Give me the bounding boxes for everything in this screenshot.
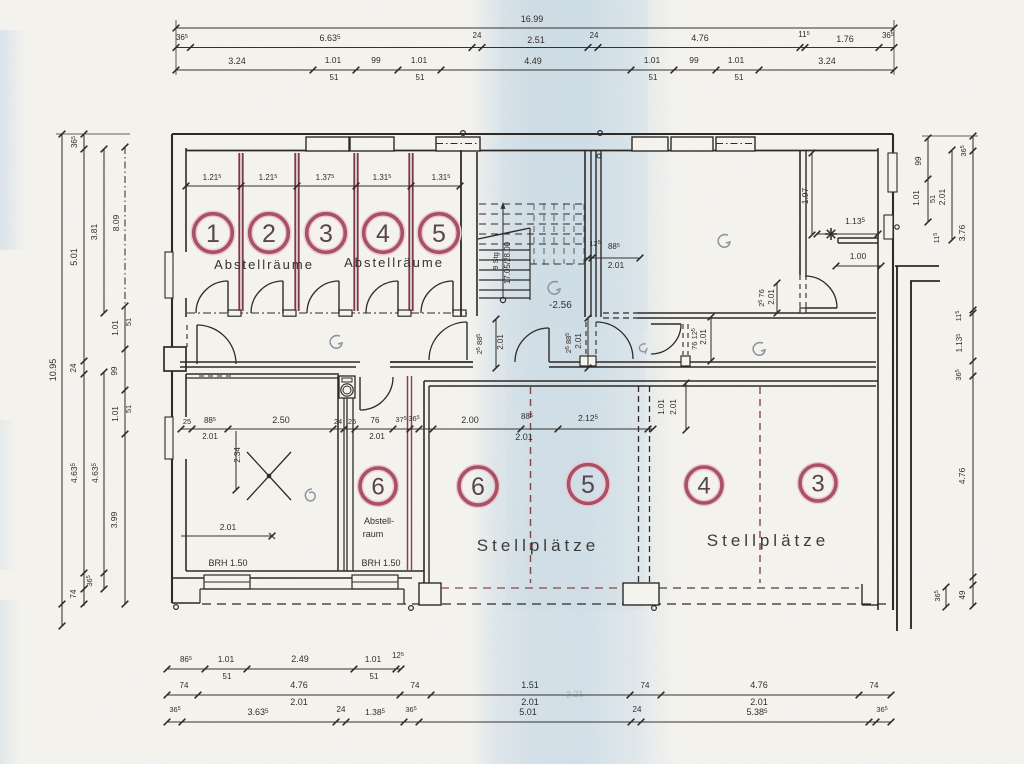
- stall divider dashed 4/3: [759, 387, 761, 583]
- stub wall door B: [681, 356, 690, 366]
- door C top-right room: [805, 307, 837, 309]
- mini dim door A: [587, 318, 589, 368]
- pencil 6 mark: [305, 489, 315, 501]
- stair hall door to parking: [548, 328, 550, 362]
- pencil g small right corridor: [639, 344, 647, 354]
- right corridor top wall: [637, 312, 876, 314]
- washing machine: [339, 376, 355, 398]
- wall between stair hall and right corridor: [584, 150, 586, 317]
- center pier dashed lines: [638, 386, 640, 583]
- circle 3: [307, 214, 346, 253]
- stub below right-corridor door: [580, 356, 596, 366]
- door B right corridor: [651, 323, 681, 325]
- left chain guide line top: [56, 133, 130, 135]
- top dim row 1 : 16.99: [176, 27, 894, 29]
- bottom window sill left: [204, 575, 250, 589]
- circle 5 parking: [569, 465, 608, 504]
- neighbour boundary wall L: [895, 265, 939, 267]
- parking left wall: [423, 381, 425, 583]
- right wall window sill top: [888, 153, 897, 192]
- dim 1.97: [811, 153, 813, 235]
- corridor bottom wall left: [180, 361, 360, 363]
- parking front dashed right: [659, 587, 859, 589]
- top dim row 3: [176, 69, 894, 71]
- pencil G left corridor: [330, 336, 342, 349]
- circle 1: [194, 214, 233, 253]
- pencil G stair hall: [548, 282, 560, 295]
- x cross: [247, 452, 291, 500]
- mini dim door C: [776, 283, 778, 313]
- door to Abstellraum: [359, 377, 361, 410]
- circle 2: [250, 214, 289, 253]
- top wall dashdot through vent: [716, 143, 755, 145]
- partition wall 1.97: [799, 151, 801, 275]
- dim 1.00: [836, 265, 881, 267]
- top wall vent blocks: [306, 137, 349, 151]
- top chain guide lines: [175, 20, 177, 75]
- small circle marks on top wall: [461, 131, 466, 136]
- rooms bottom dashdot line: [187, 312, 467, 314]
- door A right corridor: [596, 322, 633, 359]
- outer wall right: [892, 134, 894, 610]
- left wall window 2 sill: [165, 417, 173, 459]
- left dim chain 4: [124, 147, 126, 306]
- bottom wall storage rooms: [186, 570, 424, 572]
- corridor bottom wall mid: [390, 361, 473, 363]
- outer wall left: [171, 134, 173, 603]
- stair solid treads: [479, 249, 530, 251]
- stair hall left wall: [460, 150, 462, 316]
- corridor bottom wall right: [549, 361, 876, 363]
- drain circles: [174, 605, 179, 610]
- left wall window 1 sill: [165, 252, 173, 298]
- x-room top wall door dashes: [199, 375, 234, 377]
- bottom dim row A: [167, 668, 401, 670]
- outer wall top: [172, 133, 893, 135]
- mini dim parking pier: [685, 383, 687, 430]
- left dim chain 2: [83, 134, 85, 606]
- bottom dim row B: [167, 694, 891, 696]
- circle 4 parking: [686, 467, 722, 503]
- corridor left end door: [196, 325, 198, 364]
- x-room top wall: [186, 373, 339, 375]
- dim 2.01 inside x-room: [181, 535, 272, 537]
- pencil G right corridor: [753, 343, 765, 356]
- bottom window sill right: [352, 575, 398, 589]
- scan blue left edge: [0, 30, 26, 250]
- footing line bottom-left: [200, 588, 404, 590]
- left dim chain 3: [103, 149, 105, 313]
- scan blue band (vertical): [470, 0, 678, 764]
- x-room right wall / abstellraum left wall: [337, 375, 339, 571]
- room dim line y=429: [181, 428, 653, 430]
- stair newel circle: [500, 297, 505, 302]
- stair dashed upper treads: [479, 203, 584, 205]
- stair break line diagonal: [478, 228, 530, 239]
- bottom dim row C: [167, 721, 891, 723]
- dim 1.13^5 with flag: [817, 233, 878, 235]
- right dim chain B: [972, 136, 974, 606]
- parking top wall: [424, 380, 878, 382]
- pencil G big room: [718, 235, 730, 248]
- mini dim 12.5/88.5 right of stair: [585, 257, 640, 259]
- storage room door walls: [228, 310, 241, 316]
- stall divider dashed 6/5: [530, 387, 532, 583]
- stair center line: [529, 228, 531, 300]
- right wall niche: [884, 215, 893, 239]
- circle 6 parking: [459, 467, 497, 505]
- right dim chain A2 : 2.01: [951, 150, 953, 240]
- circle 5: [420, 214, 459, 253]
- right corridor top wall dashes (door opening): [603, 312, 637, 314]
- left wall pier at corridor: [164, 347, 186, 371]
- room dim lines inside storage rooms: [186, 185, 460, 187]
- storage room doors: [227, 281, 229, 313]
- parking pier center: [623, 583, 659, 605]
- parking pier left: [419, 583, 441, 605]
- right dim chain A: [927, 138, 929, 222]
- stair dashed verticals (upper flight): [533, 204, 535, 264]
- niche wall: [838, 237, 878, 239]
- circle 3 parking: [800, 465, 836, 501]
- mini dim stair door: [495, 319, 497, 368]
- parking pier right: [861, 584, 863, 605]
- left dim chain 1 : 10.95: [61, 134, 63, 626]
- top dim row 2: [176, 47, 894, 49]
- circle 4: [364, 214, 403, 253]
- dim 2.34 vertical: [235, 431, 237, 490]
- mini dim door B: [710, 317, 712, 361]
- corridor mid door (by stair): [466, 322, 468, 360]
- abstellraum right wall (maroon): [407, 376, 409, 572]
- jamb dashes right corridor door A: [585, 322, 587, 356]
- storage partitions maroon: [238, 153, 240, 311]
- jamb dashes door B: [682, 324, 684, 355]
- stair dashed lower bound: [530, 263, 584, 265]
- ground dashed line: [202, 603, 890, 605]
- right chain guide: [922, 135, 978, 137]
- circle 6 abstellraum: [360, 468, 396, 504]
- parking front dashed red left: [441, 587, 623, 589]
